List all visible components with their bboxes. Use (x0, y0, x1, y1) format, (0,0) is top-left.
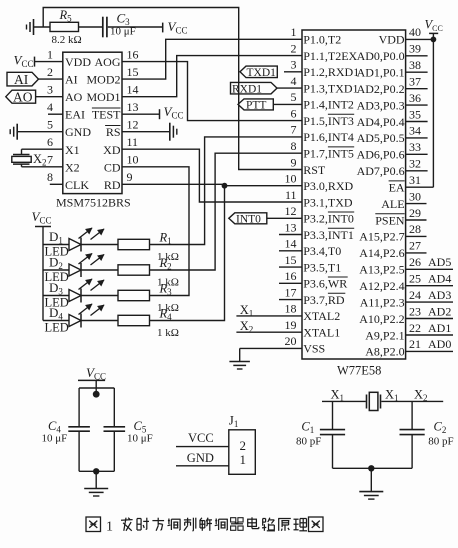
svg-text:31: 31 (409, 173, 421, 187)
svg-text:40: 40 (409, 25, 421, 39)
svg-text:2: 2 (291, 41, 297, 55)
svg-text:35: 35 (409, 107, 421, 121)
svg-text:A8,P2.0: A8,P2.0 (365, 345, 404, 359)
svg-text:A11,P2.3: A11,P2.3 (360, 295, 405, 309)
svg-text:XTAL2: XTAL2 (303, 309, 340, 323)
svg-text:AD7,P0.6: AD7,P0.6 (357, 164, 405, 178)
svg-text:RXD1: RXD1 (232, 83, 262, 95)
svg-text:11: 11 (285, 188, 297, 202)
svg-text:P3.4,T0: P3.4,T0 (303, 244, 341, 258)
svg-text:A10,P2.2: A10,P2.2 (359, 312, 404, 326)
svg-text:8.2 kΩ: 8.2 kΩ (52, 34, 82, 46)
svg-text:P3.2,INT0: P3.2,INT0 (303, 212, 354, 226)
svg-text:33: 33 (409, 140, 421, 154)
svg-text:P1.6,INT4: P1.6,INT4 (303, 130, 354, 144)
svg-text:14: 14 (285, 237, 297, 251)
svg-text:1: 1 (47, 47, 53, 61)
svg-text:18: 18 (285, 302, 297, 316)
svg-text:XD: XD (103, 143, 121, 157)
svg-text:P3.5,T1: P3.5,T1 (303, 260, 341, 274)
svg-text:AD2: AD2 (428, 304, 451, 318)
svg-text:LED: LED (45, 321, 69, 335)
svg-text:AO: AO (13, 90, 33, 105)
svg-text:13: 13 (285, 220, 297, 234)
svg-text:RS: RS (106, 125, 121, 139)
svg-text:CLK: CLK (65, 178, 89, 192)
svg-text:XTAL1: XTAL1 (303, 326, 340, 340)
svg-text:37: 37 (409, 75, 421, 89)
svg-text:A12,P2.4: A12,P2.4 (359, 279, 404, 293)
svg-text:36: 36 (409, 91, 421, 105)
svg-text:7: 7 (47, 153, 53, 167)
svg-text:5: 5 (291, 90, 297, 104)
svg-text:RD: RD (104, 178, 121, 192)
svg-text:AD4,P0.4: AD4,P0.4 (357, 115, 405, 129)
svg-text:9: 9 (127, 170, 133, 184)
svg-text:RST: RST (303, 163, 326, 177)
svg-text:1 kΩ: 1 kΩ (157, 327, 179, 339)
svg-text:34: 34 (409, 124, 421, 138)
svg-text:24: 24 (409, 288, 421, 302)
svg-text:P3.3,INT1: P3.3,INT1 (303, 228, 354, 242)
svg-text:12: 12 (285, 204, 297, 218)
svg-text:10: 10 (285, 172, 297, 186)
svg-text:VDD: VDD (379, 33, 405, 47)
svg-text:X1: X1 (65, 143, 80, 157)
svg-text:AD5,P0.5: AD5,P0.5 (357, 131, 405, 145)
svg-text:30: 30 (409, 189, 421, 203)
svg-text:AO: AO (65, 90, 83, 104)
svg-text:P1.3,TXD1: P1.3,TXD1 (303, 81, 358, 95)
svg-text:16: 16 (127, 47, 139, 61)
svg-text:P1.0,T2: P1.0,T2 (303, 33, 341, 47)
svg-text:MOD2: MOD2 (86, 73, 120, 87)
svg-text:10: 10 (127, 153, 139, 167)
svg-text:28: 28 (409, 222, 421, 236)
svg-text:3: 3 (291, 58, 297, 72)
svg-text:9: 9 (291, 155, 297, 169)
svg-text:AI: AI (65, 73, 78, 87)
svg-text:80 pF: 80 pF (428, 435, 453, 447)
svg-text:PTT: PTT (246, 100, 266, 112)
svg-text:27: 27 (409, 239, 421, 253)
svg-text:17: 17 (285, 285, 297, 299)
svg-text:22: 22 (409, 321, 421, 335)
svg-text:5: 5 (47, 118, 53, 132)
svg-text:7: 7 (291, 123, 297, 137)
svg-text:8: 8 (291, 139, 297, 153)
svg-text:VDD: VDD (65, 55, 91, 69)
svg-text:10 μF: 10 μF (127, 433, 153, 445)
svg-text:20: 20 (285, 334, 297, 348)
svg-text:6: 6 (47, 135, 53, 149)
svg-text:25: 25 (409, 272, 421, 286)
svg-text:INT0: INT0 (236, 214, 261, 226)
svg-text:15: 15 (127, 65, 139, 79)
svg-text:13: 13 (127, 100, 139, 114)
svg-text:15: 15 (285, 253, 297, 267)
svg-text:GND: GND (65, 125, 91, 139)
svg-text:P3.1,TXD: P3.1,TXD (303, 195, 353, 209)
svg-text:P1.2,RXD1: P1.2,RXD1 (303, 65, 359, 79)
svg-text:A14,P2.6: A14,P2.6 (359, 246, 404, 260)
svg-text:AI: AI (14, 72, 29, 87)
svg-text:VCC: VCC (188, 431, 214, 445)
svg-text:21: 21 (409, 337, 421, 351)
svg-text:32: 32 (409, 157, 421, 171)
svg-text:P3.0,RXD: P3.0,RXD (303, 179, 353, 193)
svg-text:8: 8 (47, 170, 53, 184)
svg-text:MSM7512BRS: MSM7512BRS (56, 196, 131, 210)
svg-text:MOD1: MOD1 (86, 90, 120, 104)
svg-text:VSS: VSS (303, 342, 325, 356)
svg-text:1: 1 (106, 520, 113, 535)
svg-text:AD3: AD3 (428, 288, 451, 302)
svg-text:12: 12 (127, 118, 139, 132)
svg-text:EA: EA (389, 181, 405, 195)
svg-text:3: 3 (47, 83, 53, 97)
svg-text:P1.1,T2EX: P1.1,T2EX (303, 49, 357, 63)
svg-text:1: 1 (291, 25, 297, 39)
svg-text:AD0,P0.0: AD0,P0.0 (357, 49, 405, 63)
svg-text:P1.4,INT2: P1.4,INT2 (303, 98, 354, 112)
svg-text:A15,P2.7: A15,P2.7 (359, 230, 404, 244)
svg-text:29: 29 (409, 206, 421, 220)
svg-text:16: 16 (285, 269, 297, 283)
svg-text:TEST: TEST (92, 108, 121, 122)
svg-text:14: 14 (127, 83, 139, 97)
svg-text:23: 23 (409, 304, 421, 318)
svg-text:P1.5,INT3: P1.5,INT3 (303, 114, 354, 128)
svg-text:GND: GND (187, 451, 214, 465)
svg-text:AD0: AD0 (428, 337, 451, 351)
svg-text:6: 6 (291, 106, 297, 120)
svg-text:A9,P2.1: A9,P2.1 (365, 328, 404, 342)
svg-text:AD6,P0.6: AD6,P0.6 (357, 148, 405, 162)
svg-text:19: 19 (285, 318, 297, 332)
svg-text:P3.6,WR: P3.6,WR (303, 277, 347, 291)
svg-text:80 pF: 80 pF (296, 435, 321, 447)
svg-text:10 μF: 10 μF (42, 433, 68, 445)
svg-text:AD1: AD1 (428, 321, 451, 335)
svg-text:PSEN: PSEN (375, 213, 405, 227)
svg-text:AD1,P0.1: AD1,P0.1 (357, 66, 405, 80)
svg-text:AD3,P0.3: AD3,P0.3 (357, 98, 405, 112)
svg-text:39: 39 (409, 42, 421, 56)
svg-text:AD4: AD4 (428, 272, 451, 286)
svg-text:TXD1: TXD1 (247, 67, 277, 79)
svg-text:X2: X2 (65, 160, 80, 174)
svg-text:4: 4 (47, 100, 53, 114)
svg-text:1: 1 (240, 452, 247, 467)
svg-text:A13,P2.5: A13,P2.5 (359, 263, 404, 277)
svg-text:4: 4 (291, 74, 297, 88)
svg-text:11: 11 (127, 135, 139, 149)
svg-text:38: 38 (409, 58, 421, 72)
svg-text:CD: CD (104, 160, 121, 174)
svg-text:W77E58: W77E58 (337, 364, 381, 378)
svg-text:2: 2 (47, 65, 53, 79)
svg-text:ALE: ALE (381, 197, 404, 211)
svg-text:AD2,P0.2: AD2,P0.2 (357, 82, 405, 96)
svg-text:EAI: EAI (65, 108, 85, 122)
svg-text:AD5: AD5 (428, 255, 451, 269)
svg-text:2: 2 (240, 438, 247, 453)
svg-text:26: 26 (409, 255, 421, 269)
svg-text:AOG: AOG (95, 55, 121, 69)
svg-text:P1.7,INT5: P1.7,INT5 (303, 147, 354, 161)
svg-text:P3.7,RD: P3.7,RD (303, 293, 345, 307)
